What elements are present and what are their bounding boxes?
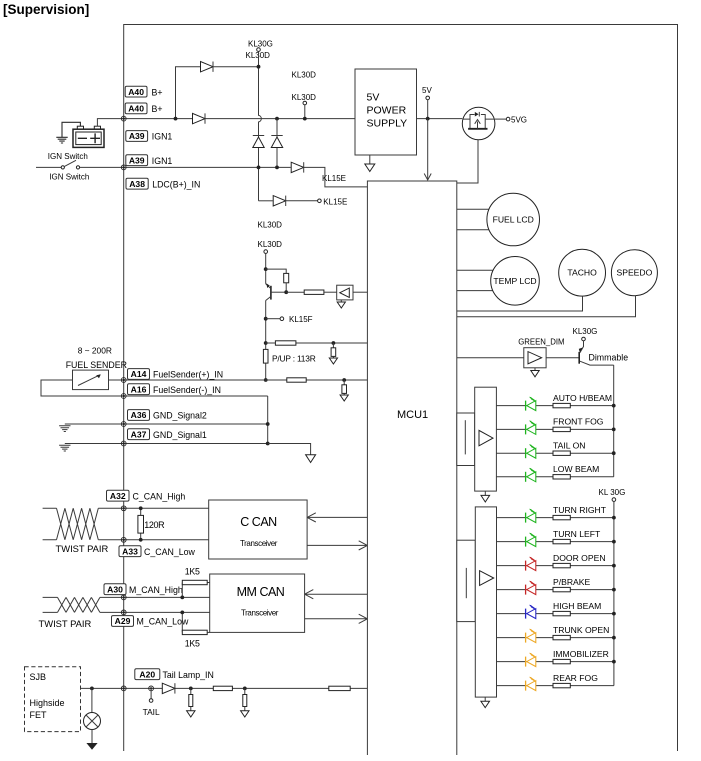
node TAIL stub [149,686,154,691]
wire KL30D stub [304,105,306,119]
wire D1 to KL30G node [213,66,259,68]
diode D4 (KL15E stub) [273,196,286,206]
MM CAN transceiver U5 [210,574,305,632]
resistor R13 (tail pulldown 2) [243,687,247,691]
IGN switch S1 [36,160,124,169]
svg-text:1K5: 1K5 [185,567,200,577]
ground (green dim buffer) [534,368,536,371]
wire to FUEL LCD [457,209,500,230]
pin A29 [112,616,134,627]
svg-text:5VG: 5VG [511,115,527,124]
svg-text:B+: B+ [152,87,163,97]
wire MM CAN TX [305,590,368,599]
junction GND_Signal2 [266,422,270,426]
svg-text:SPEEDO: SPEEDO [616,268,652,278]
svg-text:TAIL ON: TAIL ON [553,440,585,450]
diode D3 (KL15E) [291,162,304,172]
wire LED row TRUNK OPEN [497,637,614,639]
svg-text:TEMP LCD: TEMP LCD [493,276,536,286]
node 5V stub [426,96,430,100]
svg-text:KL 30G: KL 30G [599,488,626,497]
transistor Q1 [266,283,287,300]
resistor R11 (tail pulldown 1) [189,687,193,691]
junction rail 2 TURN LEFT [612,540,616,544]
LED IMMOBILIZER [526,653,536,667]
svg-text:A39: A39 [129,131,145,141]
junction rail 2 IMMOBILIZER [612,660,616,664]
junction base node [284,290,288,294]
wire C CAN TX [307,513,367,522]
svg-text:DOOR OPEN: DOOR OPEN [553,553,606,563]
svg-text:FET: FET [30,710,48,720]
svg-text:8 ~ 200R: 8 ~ 200R [78,345,112,355]
connector box 2 [457,540,476,621]
node frame tie A29 [121,610,126,615]
svg-text:POWER: POWER [367,105,407,117]
FUEL LCD indicator [487,193,540,246]
svg-text:FRONT FOG: FRONT FOG [553,417,604,427]
svg-text:A40: A40 [128,87,144,97]
C CAN transceiver U4 [209,500,307,559]
wire rail 2 [613,501,615,685]
wire KL30G vertical with hop [259,51,262,200]
junction rail 1 TAIL ON [612,451,616,455]
node KL30G stub (rail 2) [612,498,616,502]
junction rail 2 TURN RIGHT [612,516,616,520]
wire signal ground drop [268,444,311,455]
LED TURN RIGHT [526,509,536,523]
svg-text:A37: A37 [131,429,147,439]
TEMP LCD indicator [491,257,540,306]
svg-text:TWIST PAIR: TWIST PAIR [56,543,109,554]
wire C_CAN_High [43,507,209,509]
wire MOSFET gate to MCU [457,140,478,183]
svg-text:MM CAN: MM CAN [237,585,285,599]
wire LED row REAR FOG [497,685,614,687]
svg-text:KL30D: KL30D [292,70,317,79]
svg-text:AUTO H/BEAM: AUTO H/BEAM [553,393,612,403]
wire buffer to Q3 base [546,357,578,359]
svg-text:MCU1: MCU1 [397,409,428,421]
junction row pulldown [332,341,336,345]
twist pair 2 [58,597,100,612]
svg-text:SJB: SJB [30,672,47,682]
wire dim rail down [613,365,615,477]
ground (5V supply) [369,155,371,164]
ground (R7) [343,393,345,395]
junction B+ x277 [275,117,279,121]
wire R2 to opto [324,291,337,293]
node frame tie A37 [121,441,126,446]
wire P/UP row [266,342,368,344]
wire R5 to fuel node [265,363,267,380]
svg-text:TACHO: TACHO [567,268,597,278]
wire collector down [265,301,267,350]
node frame tie A33 [121,537,126,542]
svg-text:C_CAN_Low: C_CAN_Low [144,547,195,557]
node frame tie A30 [121,595,126,600]
wire to bias resistor [266,269,287,273]
svg-text:KL30D: KL30D [292,93,317,102]
svg-text:KL15E: KL15E [322,174,346,183]
transistor Q3 Dimmable [579,341,614,365]
svg-text:GND_Signal1: GND_Signal1 [153,430,207,440]
node frame tie A32 [121,506,126,511]
svg-text:HIGH BEAM: HIGH BEAM [553,601,601,611]
junction 120R bottom [139,538,143,542]
wire to TEMP LCD [457,270,500,290]
driver U7 [475,387,497,491]
resistor (TURN LEFT) [553,539,570,543]
LED TURN LEFT [526,533,536,547]
resistor (DOOR OPEN) [553,563,570,567]
pin A16 [128,384,150,395]
wire LED row DOOR OPEN [497,565,614,567]
svg-text:KL15E: KL15E [323,197,347,206]
pin A36 [128,410,150,421]
svg-text:KL30G: KL30G [573,327,598,336]
svg-text:LOW BEAM: LOW BEAM [553,464,599,474]
LED TRUNK OPEN [526,629,536,643]
ground (R4) [332,356,334,358]
ground (R13) [244,707,246,711]
wire 5V stub [427,100,429,119]
junction KL15F [264,317,268,321]
resistor R6 (fuel row) [287,378,306,382]
wire D4 to stub [286,200,318,202]
junction rail 1 FRONT FOG [612,428,616,432]
wire branch to diode D1 [176,67,201,119]
svg-text:TURN LEFT: TURN LEFT [553,529,601,539]
MCU U1 box [367,181,456,755]
pin A38 [126,178,148,189]
svg-text:SUPPLY: SUPPLY [367,118,408,130]
wire M_CAN_Low [43,611,210,613]
junction IGN1 x277 [275,166,279,170]
wire LED row LOW BEAM [496,476,613,478]
svg-text:A40: A40 [128,104,144,114]
wire LED row P/BRAKE [497,589,614,591]
diode D2 (B+ line) [193,113,206,123]
svg-text:Highside: Highside [30,698,65,708]
svg-text:120R: 120R [144,520,165,530]
wire fuel row [124,379,368,381]
junction 120R top [139,506,143,510]
pin A40 [125,86,147,97]
junction lamp [90,687,94,691]
node KL30G stub [257,48,261,52]
pin A33 [119,546,141,557]
pin A20 [135,669,160,680]
wire TACHO to MCU [457,296,583,311]
wire 5V output [417,118,463,120]
svg-text:FuelSender(-)_IN: FuelSender(-)_IN [153,385,221,395]
svg-text:TAIL: TAIL [143,707,160,717]
wire IGN1 [124,166,291,168]
wire SPEEDO to MCU [457,296,636,317]
junction fuel pulldown [342,378,346,382]
wire fuel sender minus [41,380,268,396]
svg-text:C_CAN_High: C_CAN_High [133,491,186,501]
svg-text:KL15F: KL15F [289,315,313,324]
svg-text:IMMOBILIZER: IMMOBILIZER [553,649,609,659]
wire battery to B+ node [97,119,123,127]
resistor R8 120R [140,508,142,540]
ground (opto) [340,300,342,302]
twist pair 1 [57,508,99,540]
LED AUTO H/BEAM [526,397,536,411]
resistor R3 (row) [275,341,296,345]
svg-text:A29: A29 [115,616,131,626]
svg-text:TURN RIGHT: TURN RIGHT [553,505,607,515]
ground (signal rail) [306,455,316,463]
resistor R1 (bias) [284,273,289,282]
junction rail 2 DOOR OPEN [612,564,616,568]
junction D1 line [257,65,261,69]
resistor (TAIL ON) [553,451,570,455]
junction B+ x175 [174,117,178,121]
fuel sender RV1 [73,370,109,390]
svg-text:KL30D: KL30D [258,220,283,229]
junction base resistor top [264,267,268,271]
resistor R2 (series) [304,290,324,294]
svg-text:P/BRAKE: P/BRAKE [553,577,591,587]
battery B1 [73,126,104,147]
svg-text:B+: B+ [152,104,163,114]
junction fuel row [264,378,268,382]
node KL30G stub (dimmable) [582,337,586,341]
wire LED row IMMOBILIZER [497,661,614,663]
wire base node to R2 [286,291,304,293]
pin A40 [125,103,147,114]
svg-text:Transceiver: Transceiver [240,539,278,548]
wire LED row TURN LEFT [497,541,614,543]
ground (GND_Signal2) [59,426,70,432]
svg-text:M_CAN_High: M_CAN_High [129,585,183,595]
pin A39 [126,131,148,142]
svg-text:REAR FOG: REAR FOG [553,673,598,683]
resistor R12 (tail series 1) [213,686,232,690]
junction 1K5 bottom [180,611,184,615]
SJB highside FET box [25,667,81,732]
node TAIL circle [149,699,153,703]
ground (battery) [56,122,80,143]
ground (lamp) [91,730,93,744]
diode D6 (up, left) [253,136,264,148]
resistor R7 (fuel pulldown) [343,380,345,385]
svg-text:LDC(B+)_IN: LDC(B+)_IN [152,179,200,189]
resistor (TURN RIGHT) [553,515,570,519]
LED TAIL ON [526,444,536,458]
node 5VG stub [506,117,510,121]
node frame tie B+ [121,116,126,121]
diode D7 (up, right) [271,136,282,148]
resistor (FRONT FOG) [553,427,570,431]
junction 1K5 top [180,596,184,600]
node frame tie A14 [121,378,126,383]
svg-text:IGN Switch: IGN Switch [48,152,88,161]
svg-text:5V: 5V [367,92,380,104]
5V power supply U2 [355,69,417,155]
svg-text:IGN1: IGN1 [152,132,173,142]
svg-text:IGN Switch: IGN Switch [49,173,89,182]
node frame tie IGN1 [121,165,126,170]
resistor (REAR FOG) [553,683,570,687]
svg-text:M_CAN_Low: M_CAN_Low [137,617,189,627]
wire MM CAN RX [305,614,368,623]
resistor (LOW BEAM) [553,475,570,479]
ground (GND_Signal1) [59,445,70,451]
svg-text:Dimmable: Dimmable [589,353,629,363]
resistor (IMMOBILIZER) [553,659,570,663]
svg-text:A32: A32 [110,491,126,501]
svg-text:KL30D: KL30D [246,51,271,60]
resistor (HIGH BEAM) [553,611,570,615]
wire KL15F stub [266,318,280,320]
driver U8 [475,507,496,697]
svg-text:C CAN: C CAN [240,515,277,529]
node KL15F [280,317,284,321]
wire GND_Signal2 [65,423,268,425]
svg-text:IGN1: IGN1 [152,156,173,166]
buffer U3 (boxed) [337,285,353,300]
wire opto to MCU [353,291,367,293]
pin A14 [128,369,150,380]
svg-text:FUEL SENDER: FUEL SENDER [66,360,127,370]
svg-text:KL30G: KL30G [248,40,273,49]
transistor Q2 (5VG MOSFET) [462,107,495,140]
wire LED row FRONT FOG [496,428,613,430]
svg-text:A30: A30 [107,584,123,594]
svg-text:A36: A36 [131,410,147,420]
svg-text:FuelSender(+)_IN: FuelSender(+)_IN [153,370,223,380]
svg-text:[Supervision]: [Supervision] [3,2,89,17]
svg-text:TRUNK OPEN: TRUNK OPEN [553,625,609,635]
junction rail 1 AUTO H/BEAM [612,404,616,408]
junction rail 2 HIGH BEAM [612,612,616,616]
svg-text:A39: A39 [129,155,145,165]
wire M_CAN_High [43,596,210,598]
node KL30D stub (transistor) [264,250,268,254]
svg-text:A14: A14 [131,369,147,379]
resistor R14 (tail series 2) [329,686,350,690]
svg-text:A20: A20 [139,669,155,679]
svg-text:5V: 5V [422,86,432,95]
junction P/UP row [264,341,268,345]
wire LED row HIGH BEAM [497,613,614,615]
wire fuel sender plus [109,379,124,381]
frame border [124,25,678,752]
wire LED row AUTO H/BEAM [496,405,613,407]
junction GND_Signal1 [266,442,270,446]
wire LED row TURN RIGHT [497,517,614,519]
wire GND_Signal1 [65,443,268,445]
SPEEDO indicator [611,250,657,296]
pin A32 [107,490,130,501]
svg-text:A16: A16 [131,384,147,394]
ground (R11) [190,707,192,711]
wire KL15E2 branch [259,200,273,202]
LED FRONT FOG [526,421,536,435]
junction KL30D stub [303,117,307,121]
junction rail 2 P/BRAKE [612,588,616,592]
svg-text:A38: A38 [129,179,145,189]
node KL15E stub [318,199,322,203]
connector box 1 [457,413,475,466]
resistor (P/BRAKE) [553,587,570,591]
wire tail lamp line [81,687,368,689]
junction rail 2 TRUNK OPEN [612,636,616,640]
ground (driver 1) [484,491,486,495]
node frame tie A16 [121,394,126,399]
resistor R4 (pulldown) [332,343,334,348]
svg-text:GND_Signal2: GND_Signal2 [153,411,207,421]
wire C CAN RX [307,541,367,550]
wire TAIL stub [150,688,152,698]
svg-text:Transceiver: Transceiver [241,609,279,618]
node KL30D stub (B+ line) [303,101,307,105]
svg-text:TWIST PAIR: TWIST PAIR [39,618,92,629]
LED DOOR OPEN [526,557,536,571]
lamp L1 [84,688,101,729]
wire 5V to MCU with arrow [427,119,429,180]
resistor R9 1K5 top [181,583,183,598]
wire diode riser x277 [276,119,278,168]
LED LOW BEAM [526,468,536,482]
resistor (TRUNK OPEN) [553,635,570,639]
svg-text:KL30D: KL30D [258,240,283,249]
wire minus rail down [267,396,269,444]
node frame tie A36 [121,422,126,427]
svg-text:A33: A33 [122,546,138,556]
svg-text:P/UP : 113R: P/UP : 113R [272,354,316,364]
ground (driver 2) [484,697,486,701]
wire 5VG output [495,118,506,120]
wire bias resistor bottom [285,283,287,292]
LED HIGH BEAM [526,605,536,619]
svg-text:GREEN_DIM: GREEN_DIM [518,337,564,346]
svg-text:1K5: 1K5 [185,639,200,649]
wire MCU to green dim buffer [457,357,524,359]
buffer U6 GREEN_DIM [524,348,546,368]
LED REAR FOG [526,677,536,691]
node frame tie A20 [121,686,126,691]
junction 5V [426,117,430,121]
wire B+ main [124,118,355,120]
pin A39 [126,155,148,166]
diode D5 (tail) [162,683,175,693]
svg-text:FUEL LCD: FUEL LCD [493,215,534,225]
resistor R5 P/UP 113R [263,349,268,363]
pin A30 [104,584,126,595]
pin A37 [128,429,150,440]
junction IGN1 x258 [257,166,261,170]
TACHO indicator [559,249,606,296]
wire C_CAN_Low [43,539,209,541]
wire LED row TAIL ON [496,452,613,454]
wire KL30D down [265,253,267,283]
wire KL15E to MCU [304,167,368,187]
diode D1 [201,62,214,72]
resistor (AUTO H/BEAM) [553,403,570,407]
LED P/BRAKE [526,581,536,595]
svg-text:Tail Lamp_IN: Tail Lamp_IN [163,670,214,680]
resistor R10 1K5 bottom [181,612,183,632]
